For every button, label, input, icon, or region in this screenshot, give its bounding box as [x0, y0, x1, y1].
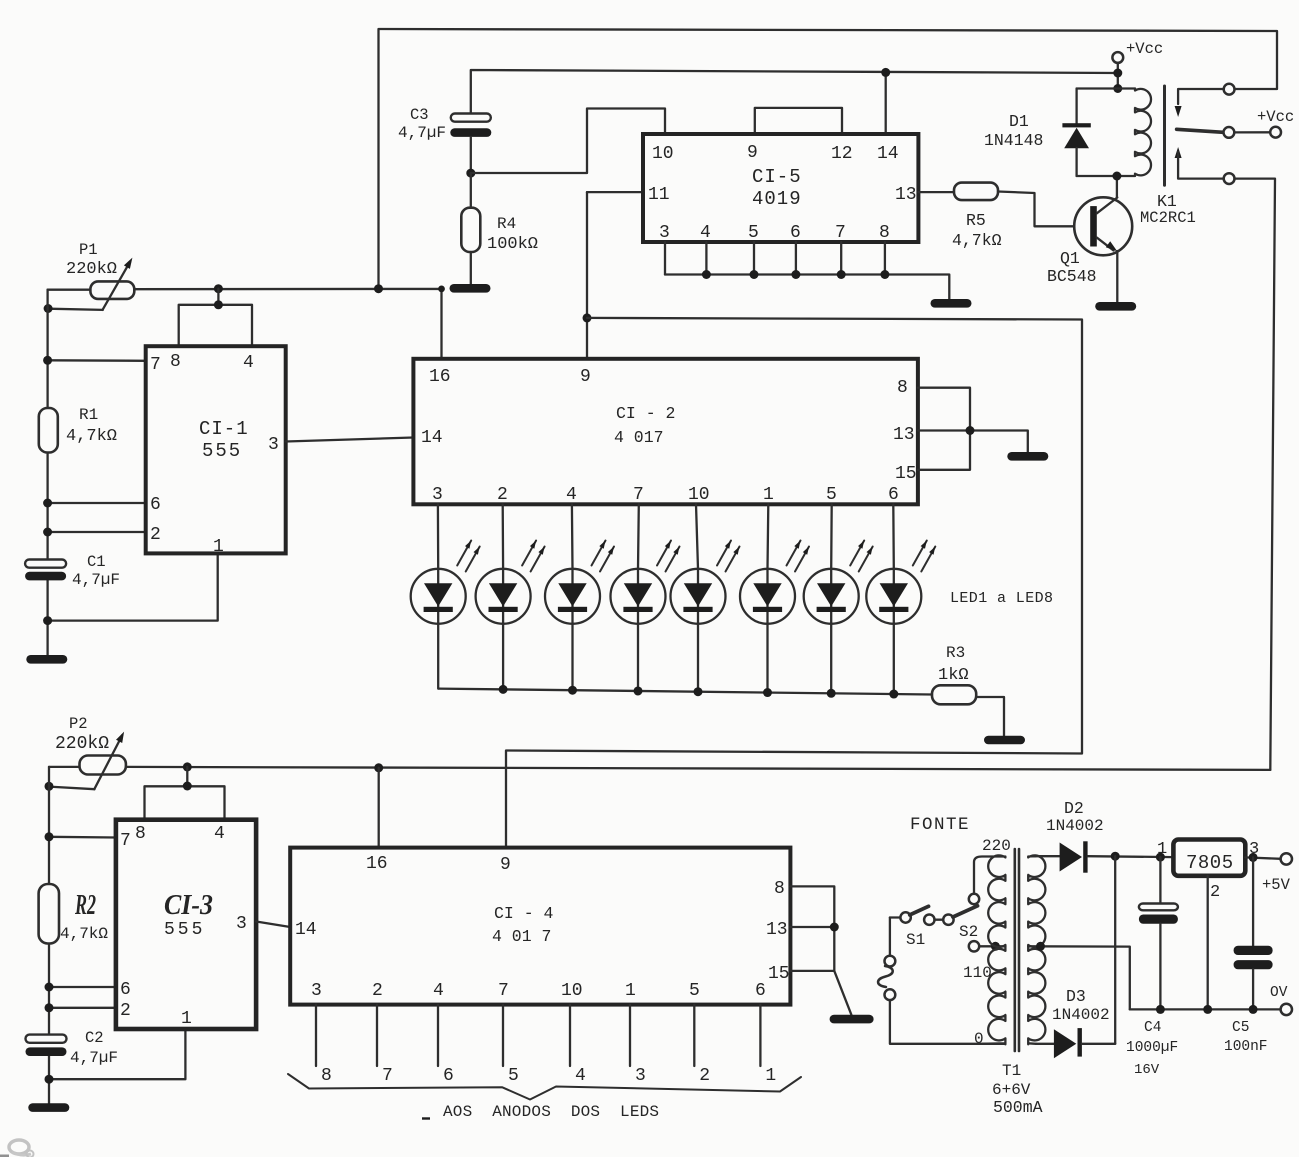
wire LED cathode common bus	[439, 689, 932, 695]
svg-text:220kΩ: 220kΩ	[66, 260, 117, 279]
terminal +5V	[1281, 853, 1292, 864]
wire C5 top lead	[1252, 857, 1254, 945]
svg-text:220: 220	[982, 837, 1011, 855]
regulator 7805	[1173, 840, 1245, 876]
svg-text:500mA: 500mA	[993, 1098, 1043, 1117]
resistor R4	[461, 208, 480, 252]
svg-text:R3: R3	[946, 644, 965, 662]
svg-text:6: 6	[120, 980, 131, 1000]
transformer T1 secondary winding	[1028, 855, 1045, 1044]
svg-text:10: 10	[652, 144, 674, 164]
svg-text:OV: OV	[1270, 985, 1288, 1001]
wire CI-4 output to LED4 anode	[569, 1005, 571, 1066]
wire C4 bottom lead	[1159, 924, 1161, 1010]
junction pin14 riser on +Vcc wire	[881, 68, 890, 77]
junction LED7 cathode bus	[827, 689, 836, 698]
svg-text:LED1 a LED8: LED1 a LED8	[950, 590, 1053, 607]
terminal +Vcc right	[1270, 127, 1281, 138]
terminal 220 tap	[969, 894, 979, 904]
svg-text:14: 14	[421, 428, 443, 448]
junction loop riser	[214, 300, 223, 309]
LED6	[766, 504, 769, 692]
ground CI-5 bus	[931, 299, 972, 308]
svg-text:BC548: BC548	[1047, 267, 1097, 286]
svg-text:15: 15	[768, 964, 790, 984]
relay contact common	[1224, 127, 1235, 138]
potentiometer P1 body	[90, 281, 134, 299]
junction bus	[750, 270, 759, 279]
wire CI-5 pins 9-12 loop	[755, 108, 842, 134]
junction rail pin7	[43, 356, 52, 365]
wire coil top	[1077, 87, 1135, 89]
wire C3 top to +Vcc rail	[471, 70, 1118, 114]
svg-text:1N4002: 1N4002	[1046, 817, 1104, 835]
junction center tap	[1036, 942, 1045, 951]
svg-text:4: 4	[243, 353, 254, 373]
svg-text:14: 14	[877, 144, 899, 164]
AC symbol	[878, 966, 893, 987]
svg-text:R4: R4	[497, 215, 516, 233]
wire left rail mid	[46, 453, 48, 560]
svg-text:6: 6	[888, 485, 899, 505]
wire CI-5 pin11 / CI-2 pin9 riser	[586, 192, 588, 359]
svg-text:8: 8	[135, 824, 146, 844]
junction +Vcc stub / supply wire	[1113, 69, 1122, 78]
wire relay bottom contact to lower rail	[1234, 179, 1275, 770]
terminal +Vcc top	[1112, 52, 1123, 63]
svg-text:D3: D3	[1066, 987, 1086, 1006]
junction rail CI-3 pin2	[45, 1003, 54, 1012]
svg-text:6: 6	[443, 1066, 454, 1086]
wire S1 to S2	[935, 919, 944, 921]
wire CI-4 to ground	[834, 971, 851, 1015]
wire CI-3 pin3 to CI-4 pin14	[256, 922, 290, 928]
LED2	[502, 504, 505, 689]
diode D3 1N4002	[1054, 1029, 1076, 1058]
svg-text:555: 555	[202, 440, 242, 462]
wire P1 wiper connection	[48, 309, 103, 310]
svg-text:0: 0	[974, 1030, 984, 1048]
IC CI-3 555	[116, 820, 256, 1029]
wire CI-1 pin 2	[48, 531, 146, 533]
svg-text:1kΩ: 1kΩ	[938, 666, 969, 685]
svg-text:P1: P1	[79, 241, 98, 259]
svg-text:C1: C1	[87, 553, 106, 571]
wire CI-5 pin13 to R5	[918, 191, 954, 193]
svg-text:5: 5	[826, 485, 837, 505]
svg-text:4,7kΩ: 4,7kΩ	[952, 231, 1002, 250]
resistor R3	[932, 685, 976, 704]
junction 7805 pin2 0V	[1203, 1005, 1212, 1014]
svg-text:110: 110	[963, 964, 992, 982]
capacitor C2	[26, 1035, 67, 1043]
svg-text:6+6V: 6+6V	[992, 1081, 1031, 1099]
svg-text:2: 2	[120, 1001, 131, 1021]
svg-text:+Vcc: +Vcc	[1126, 40, 1163, 58]
svg-text:555: 555	[164, 920, 205, 940]
svg-text:T1: T1	[1002, 1062, 1021, 1080]
wire CI-4 pin13	[790, 926, 834, 928]
junction C3/R4/CI-5 pin10	[466, 169, 475, 178]
wire top +Vcc rail from relay contact	[379, 29, 1278, 289]
ground Q1 emitter	[1095, 302, 1136, 311]
junction LED2 cathode bus	[499, 685, 508, 694]
svg-text:13: 13	[893, 425, 915, 445]
switch S2 pole	[943, 915, 953, 925]
wire P2 left lead	[49, 766, 80, 768]
wire CI-5 bottom pin riser	[884, 242, 886, 275]
wire mains bottom to T1 0 tap	[890, 1000, 1006, 1044]
svg-text:2: 2	[372, 981, 383, 1001]
wire 7805 pin2 to 0V	[1207, 876, 1209, 1010]
svg-text:100nF: 100nF	[1224, 1039, 1268, 1055]
svg-text:5: 5	[689, 981, 700, 1001]
junction C5 0V	[1249, 1005, 1258, 1014]
wire CI-5 bottom pin riser	[840, 242, 842, 275]
wire R5 to Q1 base	[998, 192, 1090, 227]
junction LED4 cathode bus	[634, 686, 643, 695]
wire secondary bottom to D3	[1036, 1043, 1054, 1045]
wire 7805 out to +5V	[1245, 857, 1280, 858]
LED1	[437, 504, 440, 688]
junction rail CI-3 pin7	[45, 832, 54, 841]
svg-text:FONTE: FONTE	[910, 815, 970, 835]
junction coil bottom / collector	[1112, 172, 1121, 181]
svg-text:1000µF: 1000µF	[1126, 1040, 1178, 1056]
junction rail CI-3 pin1	[45, 1075, 54, 1084]
svg-text:CI - 4: CI - 4	[494, 904, 554, 923]
wire CI-3 pins 8-4 loop	[145, 786, 225, 819]
svg-text:Q1: Q1	[1060, 249, 1080, 268]
relay K1 core	[1163, 86, 1166, 185]
wire CI-2 pin13 to ground	[918, 431, 1028, 453]
svg-text:8: 8	[897, 378, 908, 398]
relay arrow down	[1175, 106, 1182, 117]
wire CI-5 bottom pin riser	[705, 242, 707, 275]
terminal mains bottom	[885, 989, 896, 1000]
junction bus	[837, 270, 846, 279]
wire Q1 emitter	[1116, 251, 1118, 302]
wire CI-4 output to LED1 anode	[759, 1005, 761, 1066]
svg-text:3: 3	[236, 914, 247, 934]
junction C4	[1156, 853, 1165, 862]
svg-text:3: 3	[432, 485, 443, 505]
svg-text:100kΩ: 100kΩ	[487, 235, 538, 254]
wire P1 right lead to CI-2 pin 16	[134, 289, 441, 359]
svg-text:7: 7	[498, 981, 509, 1001]
svg-text:D2: D2	[1064, 799, 1084, 818]
resistor R1	[39, 408, 58, 453]
svg-text:CI-3: CI-3	[164, 889, 213, 921]
wire CI-3 pin 2	[49, 1007, 116, 1009]
wire D2 to 7805 input	[1088, 855, 1174, 858]
wire secondary top to D2	[1034, 855, 1060, 857]
P2 wiper arrow	[94, 735, 122, 789]
svg-text:C4: C4	[1144, 1020, 1161, 1036]
wire P2 wiper connection	[49, 787, 95, 790]
svg-text:9: 9	[500, 855, 511, 875]
transistor Q1 BC548	[1074, 197, 1132, 255]
wire CI-1 pin3 to CI-2 pin14	[286, 438, 414, 442]
wire to CI-5 pin 10	[471, 109, 665, 174]
transformer T1 core	[1013, 849, 1016, 1051]
wire R3 to ground	[976, 697, 1004, 736]
wire CI-4 output to LED7 anode	[376, 1005, 378, 1066]
wire CI-2 pins 8-15 tie	[918, 388, 970, 470]
svg-text:13: 13	[766, 920, 788, 940]
svg-text:16: 16	[366, 854, 388, 874]
svg-text:16: 16	[429, 367, 451, 387]
svg-text:1N4002: 1N4002	[1052, 1006, 1110, 1024]
svg-text:S2: S2	[959, 923, 978, 941]
junction LED8 cathode bus	[889, 690, 898, 699]
capacitor C1	[25, 560, 66, 568]
svg-text:C5: C5	[1232, 1020, 1249, 1036]
wire CI-5 pin 11	[587, 191, 643, 193]
wire C4 top lead	[1159, 857, 1161, 903]
junction CI-4 pins 8-13-15	[830, 923, 839, 932]
wire lower +Vcc rail P2 to relay bottom contact	[126, 767, 1270, 770]
wire CI-3 pin 7	[49, 836, 116, 839]
wire mains left down	[889, 918, 891, 956]
svg-text:2: 2	[699, 1066, 710, 1086]
relay K1 common lever	[1177, 129, 1224, 132]
junction P1 wire / top rail	[374, 284, 383, 293]
svg-text:4: 4	[214, 824, 225, 844]
wire D3 to junction	[1082, 1043, 1115, 1045]
LED3	[571, 504, 574, 690]
svg-text:R1: R1	[79, 406, 98, 424]
wire center tap to 0V	[1028, 946, 1130, 1009]
svg-text:5: 5	[748, 223, 759, 243]
svg-text:3: 3	[659, 223, 670, 243]
junction LED3 cathode bus	[568, 686, 577, 695]
LED5	[696, 504, 698, 691]
junction pins 8-13-15	[966, 426, 975, 435]
switch S1 pole	[900, 912, 910, 922]
svg-text:8: 8	[774, 879, 785, 899]
relay contact top	[1224, 84, 1235, 95]
junction LED6 cathode bus	[763, 688, 772, 697]
svg-text:9: 9	[747, 143, 758, 163]
svg-text:4,7µF: 4,7µF	[72, 571, 120, 589]
wire CI-1 pin 6	[48, 502, 146, 504]
svg-text:4019: 4019	[752, 188, 802, 210]
wire P1 left lead	[48, 289, 91, 291]
wire D1 anode lead	[1075, 148, 1077, 176]
svg-text:4 017: 4 017	[614, 428, 664, 447]
wire CI-3 pin 1 return	[49, 1029, 185, 1079]
svg-text:10: 10	[688, 485, 710, 505]
wire CI-4 output to LED8 anode	[315, 1005, 317, 1066]
svg-text:4,7kΩ: 4,7kΩ	[66, 427, 117, 446]
relay arrow up	[1175, 147, 1182, 158]
switch S1 lever	[910, 906, 929, 915]
junction 110 tap	[991, 942, 1000, 951]
wire Q1 collector	[1116, 176, 1118, 197]
svg-text:2: 2	[1210, 883, 1220, 902]
wire mains to S1	[890, 916, 900, 918]
wire left rail bottom mid	[48, 944, 50, 1035]
brace AOS ANODOS DOS LEDS	[288, 1074, 801, 1100]
svg-text:MC2RC1: MC2RC1	[1140, 209, 1196, 227]
wire CI-1 pins 8-4 loop	[179, 305, 252, 346]
transformer T1 primary winding	[974, 855, 1005, 1044]
svg-text:6: 6	[150, 495, 161, 515]
junction rail pin6	[43, 499, 52, 508]
wire CI-1 pin 1 return	[48, 553, 218, 620]
terminal 110 tap	[969, 941, 979, 951]
wire R4 top lead	[470, 173, 472, 208]
junction rail CI-3 pin6	[45, 983, 54, 992]
capacitor C4	[1139, 904, 1178, 911]
svg-text:6: 6	[755, 981, 766, 1001]
wire top contact to armature	[1178, 89, 1224, 104]
svg-text:2: 2	[497, 485, 508, 505]
junction bus	[702, 270, 711, 279]
svg-text:3: 3	[635, 1066, 646, 1086]
svg-text:4 01 7: 4 01 7	[492, 927, 551, 946]
svg-text:11: 11	[648, 185, 670, 205]
wire CI-5 pin 14 riser	[885, 72, 887, 134]
svg-text:1: 1	[1157, 840, 1167, 859]
wire common to +Vcc terminal	[1234, 131, 1270, 133]
svg-text:4: 4	[566, 485, 577, 505]
junction P1 wire / CI-1 pins 8-4 riser	[214, 284, 223, 293]
svg-text:C2: C2	[85, 1029, 104, 1047]
svg-text:1: 1	[763, 485, 774, 505]
svg-text:R5: R5	[966, 211, 986, 230]
wire CI-4 output to LED5 anode	[502, 1005, 504, 1066]
wire left rail bottom upper	[48, 767, 50, 884]
ground R4	[450, 284, 491, 293]
decorative: none (grey print artifact)	[0, 1140, 34, 1157]
svg-text:7: 7	[150, 355, 161, 375]
ground CI-4	[830, 1015, 874, 1024]
svg-text:R2: R2	[74, 889, 96, 921]
svg-text:9: 9	[580, 367, 591, 387]
wire CI-5 bottom pin riser	[664, 242, 666, 275]
wire CI-5 bottom pin riser	[753, 242, 755, 275]
wire loop riser to P1 net	[217, 289, 219, 305]
wire bottom contact to armature	[1178, 152, 1224, 179]
svg-text:2: 2	[150, 525, 161, 545]
svg-text:4,7kΩ: 4,7kΩ	[60, 925, 108, 943]
svg-text:8: 8	[170, 352, 181, 372]
svg-text:+Vcc: +Vcc	[1257, 108, 1294, 126]
svg-text:CI-1: CI-1	[199, 418, 249, 440]
svg-text:14: 14	[295, 920, 317, 940]
svg-text:1: 1	[625, 981, 636, 1001]
svg-text:7: 7	[835, 223, 846, 243]
svg-text:CI - 2: CI - 2	[616, 404, 675, 423]
LED7	[830, 504, 833, 693]
wire left rail upper	[46, 290, 48, 408]
wire long net CI-2 pin9 to CI-4 pin9	[506, 318, 1082, 848]
svg-text:4: 4	[700, 223, 711, 243]
junction C5 top	[1249, 853, 1258, 862]
svg-text:1: 1	[213, 537, 224, 557]
junction P2 wire / CI-3 loop riser	[183, 762, 192, 771]
LED4	[637, 504, 640, 691]
LED8	[892, 504, 895, 694]
ground CI-2 pin13	[1007, 452, 1048, 461]
IC CI-2 4017	[413, 359, 918, 505]
diode D2 1N4002	[1060, 843, 1082, 872]
wire CI-5 ground bus	[665, 275, 949, 300]
wire 0V line	[1130, 1008, 1281, 1010]
P1 wiper arrow	[103, 262, 131, 310]
svg-text:4: 4	[433, 981, 444, 1001]
wire C5 bottom lead	[1252, 969, 1254, 1009]
junction rail/P2 wiper	[45, 782, 54, 791]
svg-text:15: 15	[895, 464, 917, 484]
svg-text:4: 4	[575, 1066, 586, 1086]
svg-text:1: 1	[765, 1066, 776, 1086]
junction at CI-2 pin16 corner	[438, 286, 445, 293]
svg-text:4,7µF: 4,7µF	[398, 124, 446, 142]
junction rail pin2	[43, 528, 52, 537]
resistor R2	[39, 884, 59, 944]
svg-text:8: 8	[321, 1066, 332, 1086]
wire left rail lower	[46, 580, 48, 655]
wire +Vcc stub	[1117, 63, 1119, 89]
junction node to CI-4 pin9 net	[583, 313, 592, 322]
svg-text:7: 7	[120, 831, 131, 851]
wire CI-5 bottom pin riser	[795, 242, 797, 275]
svg-text:7: 7	[633, 485, 644, 505]
junction CI-3 loop	[183, 782, 192, 791]
svg-text:5: 5	[508, 1066, 519, 1086]
svg-text:1N4148: 1N4148	[984, 131, 1043, 150]
wire CI-4 pins 8-15 tie	[790, 886, 834, 971]
op-amp U: IC CI-1 555	[146, 346, 286, 553]
svg-text:8: 8	[879, 223, 890, 243]
wire coil bottom	[1077, 175, 1135, 177]
svg-text:7: 7	[382, 1066, 393, 1086]
resistor R5	[954, 183, 998, 201]
wire D3 cathode riser	[1114, 856, 1116, 1044]
wire CI-1 pin 7	[48, 359, 146, 362]
junction LED5 cathode bus	[694, 687, 703, 696]
svg-text:1: 1	[181, 1009, 192, 1029]
wire CI-3 loop riser	[186, 767, 188, 786]
junction bus	[791, 270, 800, 279]
wire CI-3 pin 6	[49, 986, 116, 988]
junction bus	[880, 270, 889, 279]
wire left rail bottom lower	[48, 1055, 50, 1103]
wire 110 tap	[979, 945, 1005, 947]
wire R4 bottom lead	[470, 252, 472, 284]
terminal 0V	[1281, 1004, 1292, 1015]
svg-text:3: 3	[311, 981, 322, 1001]
svg-text:12: 12	[831, 144, 853, 164]
junction rail/P1 wiper	[44, 304, 53, 313]
wire D1 cathode lead	[1075, 89, 1077, 125]
IC CI-4 4017	[290, 848, 790, 1005]
junction D2/D3 cathodes	[1111, 852, 1120, 861]
wire CI-4 pin 16 riser	[378, 768, 380, 848]
svg-text:S1: S1	[906, 931, 925, 949]
junction P2 wire / CI-4 pin16 riser	[374, 763, 383, 772]
relay K1 coil	[1135, 89, 1151, 176]
svg-text:C3: C3	[410, 106, 429, 124]
ground R3	[984, 736, 1025, 745]
svg-text:6: 6	[790, 223, 801, 243]
wire CI-4 output to LED3 anode	[629, 1005, 631, 1066]
svg-text:CI-5: CI-5	[752, 166, 802, 188]
terminal mains top	[885, 956, 896, 967]
